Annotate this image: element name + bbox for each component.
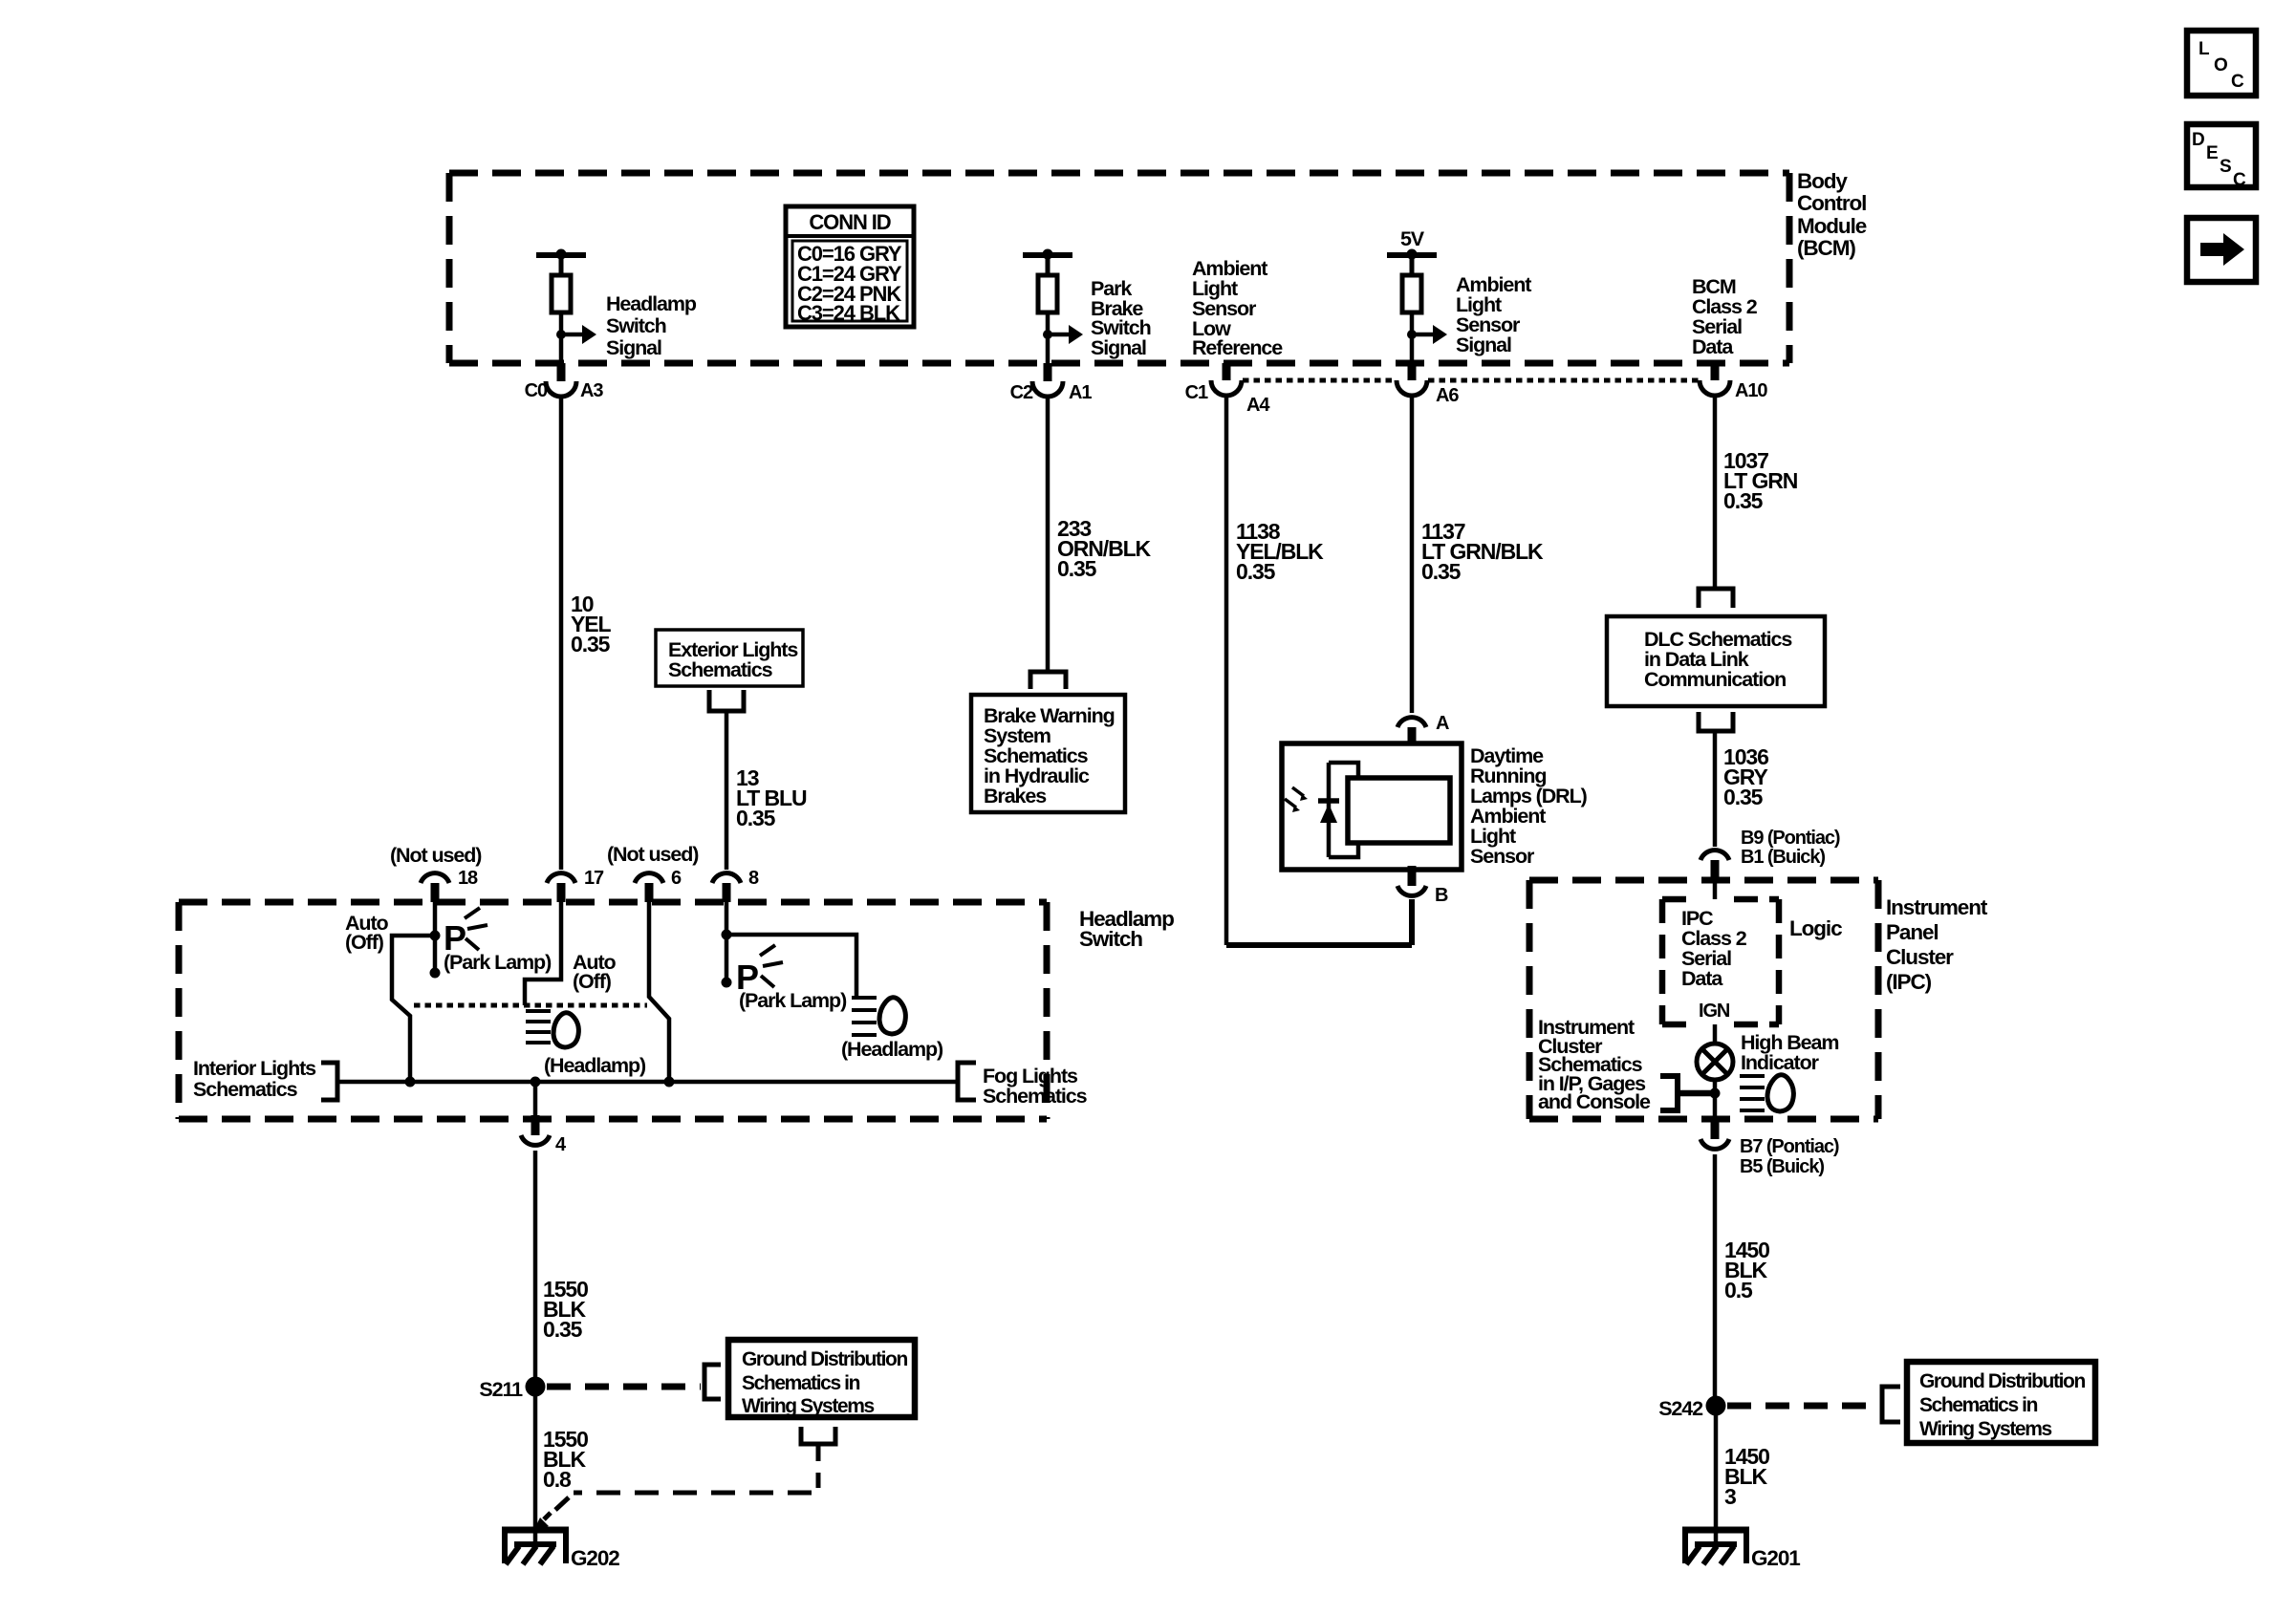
pin A6 connector: [1397, 363, 1459, 406]
wire 10 YEL from C0/A3 to headlamp switch pin 17: [561, 396, 611, 870]
svg-text:0.35: 0.35: [736, 806, 776, 830]
dashed link S211 to ground distribution: [547, 1384, 701, 1390]
Body Control Module (BCM) dashed box: [449, 173, 1789, 363]
pin C0/A3 connector: [525, 363, 604, 401]
svg-text:Data: Data: [1681, 967, 1723, 990]
Ambient Light Sensor Low Reference label: [1192, 257, 1283, 359]
svg-text:Schematics: Schematics: [193, 1078, 298, 1101]
CONN ID table: [786, 206, 914, 327]
switch wiper arm from pin 6 to output bus: [649, 902, 669, 1082]
Interior Lights Schematics off-page bracket: [193, 1057, 337, 1101]
svg-text:0.35: 0.35: [543, 1317, 583, 1342]
arrow corner icon: [2187, 218, 2256, 282]
Headlamp Switch label: [1079, 907, 1174, 951]
Instrument Panel Cluster (IPC) dashed box: [1529, 880, 1878, 1119]
svg-text:CONN ID: CONN ID: [809, 210, 890, 234]
svg-text:Switch: Switch: [606, 314, 666, 337]
pin B connector (DRL sensor): [1397, 866, 1448, 906]
Ambient Light Sensor Signal label: [1456, 273, 1531, 356]
svg-text:(BCM): (BCM): [1797, 236, 1855, 260]
LOC corner icon: [2187, 31, 2256, 96]
pin 6 connector: [635, 868, 682, 902]
svg-text:B9 (Pontiac): B9 (Pontiac): [1741, 828, 1840, 849]
High Beam Indicator label: [1741, 1031, 1838, 1074]
splice S242: [1658, 1396, 1725, 1421]
svg-text:S211: S211: [479, 1378, 523, 1401]
svg-text:A10: A10: [1735, 380, 1767, 401]
svg-text:C2: C2: [1010, 382, 1033, 403]
svg-text:G202: G202: [571, 1546, 619, 1570]
svg-text:C: C: [2233, 170, 2246, 190]
svg-text:IGN: IGN: [1699, 1001, 1730, 1022]
Brake Warning System Schematics in Hydraulic Brakes box: [971, 695, 1125, 812]
svg-text:(Headlamp): (Headlamp): [544, 1054, 646, 1077]
svg-text:Panel: Panel: [1886, 920, 1939, 944]
svg-text:Module: Module: [1797, 214, 1867, 238]
connector C1 dotted body line: [1243, 378, 1699, 383]
svg-text:0.35: 0.35: [1723, 785, 1764, 809]
park lamp symbol P (left): [444, 908, 487, 958]
svg-text:8: 8: [748, 868, 759, 889]
svg-text:C3=24 BLK: C3=24 BLK: [797, 301, 900, 325]
svg-text:A: A: [1436, 713, 1449, 734]
svg-text:Schematics: Schematics: [983, 1085, 1088, 1108]
Fog Lights Schematics off-page bracket: [958, 1063, 1088, 1108]
svg-text:Brakes: Brakes: [984, 785, 1047, 807]
Auto (Off) label left: [345, 912, 389, 954]
IPC Class 2 Serial Data label: [1681, 907, 1747, 990]
svg-text:L: L: [2199, 39, 2210, 59]
bracket to ground distribution box (right): [1882, 1387, 1900, 1422]
IPC label: [1886, 895, 1988, 994]
svg-text:Signal: Signal: [606, 336, 661, 359]
svg-text:(Headlamp): (Headlamp): [841, 1038, 943, 1061]
svg-text:Headlamp: Headlamp: [606, 292, 697, 315]
wire 1037 LT GRN from A10 to DLC bracket: [1715, 395, 1798, 589]
svg-text:B5 (Buick): B5 (Buick): [1740, 1156, 1824, 1177]
headlamp position symbol (right): [852, 998, 905, 1035]
svg-text:0.35: 0.35: [1236, 559, 1276, 584]
Headlamp Switch Signal label: [606, 292, 697, 359]
splice S211: [479, 1377, 545, 1402]
svg-text:0.35: 0.35: [1057, 556, 1097, 581]
pin 4 connector: [521, 1115, 567, 1155]
Brake Warning System bracket: [1030, 672, 1066, 689]
Ground Distribution Schematics in Wiring Systems box (right): [1907, 1362, 2095, 1443]
svg-text:Schematics: Schematics: [668, 658, 773, 681]
bracket under ground distribution box (left): [801, 1427, 835, 1488]
wire from pin 8 contact to headlamp position: [726, 935, 856, 996]
svg-text:Body: Body: [1797, 169, 1848, 193]
switch stub from pin 8 with park lamp contact: [722, 902, 732, 988]
Daytime Running Lamps (DRL) Ambient Light Sensor box: [1282, 743, 1462, 870]
svg-text:A4: A4: [1246, 395, 1270, 416]
Ground Distribution Schematics in Wiring Systems box (left): [728, 1340, 915, 1417]
svg-text:Reference: Reference: [1192, 336, 1283, 359]
Auto (Off) label right: [573, 951, 617, 993]
svg-text:Signal: Signal: [1091, 336, 1146, 359]
wire 233 ORN/BLK from C2/A1 to brake warning bracket: [1048, 396, 1152, 672]
pin A connector (DRL sensor): [1397, 713, 1449, 745]
svg-text:0.5: 0.5: [1724, 1278, 1753, 1303]
svg-text:0.35: 0.35: [1723, 488, 1764, 513]
svg-text:and Console: and Console: [1538, 1090, 1651, 1113]
svg-text:(Park Lamp): (Park Lamp): [739, 989, 847, 1012]
Instrument Cluster Schematics in I/P, Gages and Console label: [1538, 1016, 1651, 1113]
switch stub from pin 18 with park lamp contact: [430, 902, 441, 979]
svg-text:Wiring Systems: Wiring Systems: [1919, 1418, 2051, 1440]
DLC bracket bottom: [1699, 712, 1733, 731]
svg-text:(Not used): (Not used): [390, 844, 482, 867]
wire 1550 BLK 0.35 from pin 4 to S211: [535, 1151, 588, 1381]
5V supply: [1387, 227, 1437, 260]
wire 1550 BLK 0.8 from S211 to G202: [535, 1393, 588, 1544]
svg-text:3: 3: [1724, 1484, 1736, 1509]
svg-text:0.35: 0.35: [571, 632, 611, 657]
wire below lamp with junction: [1710, 1080, 1721, 1119]
svg-text:D: D: [2192, 130, 2204, 150]
Park Brake Switch Signal label: [1091, 277, 1151, 359]
DLC bracket top: [1699, 589, 1733, 608]
wire low-reference return (C1/A4 to B): [1226, 942, 1412, 948]
svg-text:17: 17: [584, 868, 604, 889]
wire 1450 BLK 3 from S242 to G201: [1716, 1412, 1769, 1544]
high beam symbol: [1740, 1075, 1793, 1111]
ground G201: [1682, 1530, 1800, 1570]
svg-text:Sensor: Sensor: [1470, 845, 1535, 868]
svg-text:Schematics in: Schematics in: [1919, 1394, 2038, 1416]
dashed pointer to G202: [533, 1493, 812, 1531]
svg-text:Communication: Communication: [1644, 668, 1786, 691]
svg-text:A3: A3: [580, 380, 603, 401]
DLC Schematics in Data Link Communication box: [1607, 616, 1825, 706]
park lamp symbol P (right): [736, 945, 783, 997]
pin 18 connector: [421, 868, 478, 902]
BCM label: [1797, 169, 1867, 260]
svg-text:6: 6: [671, 868, 682, 889]
wire from pin B down to junction row: [1409, 899, 1415, 945]
svg-text:Instrument: Instrument: [1886, 895, 1988, 919]
wire from bus to pin 4: [533, 1082, 538, 1115]
pin 17 connector: [547, 868, 604, 902]
svg-text:(Park Lamp): (Park Lamp): [444, 951, 552, 974]
svg-text:Cluster: Cluster: [1886, 945, 1954, 969]
svg-text:5V: 5V: [1400, 227, 1425, 250]
bracket under exterior lights box: [709, 690, 744, 711]
wire 1036 GRY from DLC to B9: [1715, 731, 1768, 847]
svg-text:B: B: [1435, 885, 1448, 906]
svg-text:18: 18: [458, 868, 478, 889]
svg-text:Interior Lights: Interior Lights: [193, 1057, 316, 1080]
svg-text:Data: Data: [1692, 335, 1734, 358]
bracket to ground distribution box (left): [704, 1365, 721, 1399]
resistor R3 (ambient light sensor pull-up): [1402, 258, 1447, 363]
Headlamp Switch dashed box: [179, 902, 1047, 1119]
DESC corner icon: [2187, 124, 2256, 190]
pin B9/B1 connector: [1700, 828, 1840, 881]
svg-text:Wiring Systems: Wiring Systems: [742, 1395, 874, 1417]
wire 1450 BLK 0.5 from B7 to S242: [1715, 1154, 1769, 1400]
switch contact from pin 17 (Auto Off): [525, 902, 561, 1005]
wire 13 LT BLU from exterior lights to pin 8: [726, 711, 807, 870]
svg-text:S: S: [2220, 157, 2231, 177]
switch wiper arm from pin 18 to output bus: [392, 936, 435, 1082]
ground G202: [502, 1530, 619, 1570]
svg-text:G201: G201: [1751, 1546, 1800, 1570]
wire 1137 LT GRN/BLK from A6 to DRL sensor pin A: [1412, 395, 1544, 713]
svg-text:Schematics in: Schematics in: [742, 1372, 860, 1394]
wire from B9 pin into logic box: [1713, 880, 1718, 899]
photodiode D1 inside DRL sensor: [1285, 763, 1358, 857]
svg-text:E: E: [2206, 143, 2218, 163]
headlamp switch output bus: [337, 1077, 958, 1087]
pin C2/A1 connector: [1010, 363, 1093, 403]
svg-text:(Not used): (Not used): [607, 843, 699, 866]
svg-text:(Off): (Off): [573, 970, 612, 993]
resistor R2 (park brake switch signal pull-up): [1023, 249, 1083, 364]
svg-text:A1: A1: [1069, 382, 1092, 403]
svg-text:Indicator: Indicator: [1741, 1051, 1820, 1074]
wire from IGN to high beam indicator lamp: [1713, 1024, 1718, 1044]
svg-text:0.8: 0.8: [543, 1467, 572, 1492]
svg-text:Signal: Signal: [1456, 334, 1511, 356]
svg-text:Ground Distribution: Ground Distribution: [1919, 1370, 2085, 1392]
pin 8 connector: [712, 868, 759, 902]
svg-text:B7 (Pontiac): B7 (Pontiac): [1740, 1136, 1839, 1157]
svg-text:Ground Distribution: Ground Distribution: [742, 1348, 907, 1370]
svg-text:(Off): (Off): [345, 931, 384, 954]
IPC logic dashed box: [1662, 899, 1779, 1024]
svg-text:A6: A6: [1436, 385, 1459, 406]
dashed link S242 to ground distribution: [1727, 1403, 1881, 1410]
pin A10 connector: [1700, 363, 1767, 401]
wire 1138 YEL/BLK from C1/A4 down: [1226, 395, 1324, 945]
pin B7/B5 connector: [1700, 1119, 1839, 1177]
svg-text:O: O: [2214, 55, 2227, 75]
svg-text:Control: Control: [1797, 191, 1866, 215]
headlamp position symbol (left): [526, 1011, 578, 1047]
DRL sensor label: [1470, 744, 1588, 868]
svg-text:C: C: [2231, 72, 2244, 92]
Instrument Cluster Schematics bracket: [1660, 1076, 1715, 1110]
svg-text:0.35: 0.35: [1421, 559, 1462, 584]
Exterior Lights Schematics box: [656, 630, 803, 686]
high beam indicator lamp: [1697, 1044, 1733, 1080]
BCM Class 2 Serial Data label: [1692, 275, 1758, 358]
switch linkage dotted line: [414, 1003, 647, 1008]
svg-text:(IPC): (IPC): [1886, 970, 1932, 994]
svg-text:C0: C0: [525, 380, 548, 401]
svg-text:S242: S242: [1658, 1397, 1703, 1420]
pin C1/A4 connector: [1185, 363, 1271, 416]
svg-text:C1: C1: [1185, 382, 1208, 403]
resistor R1 (headlamp switch signal pull-up): [536, 249, 596, 364]
svg-text:Logic: Logic: [1789, 916, 1842, 940]
svg-text:B1 (Buick): B1 (Buick): [1741, 847, 1825, 868]
svg-text:Switch: Switch: [1079, 927, 1142, 951]
